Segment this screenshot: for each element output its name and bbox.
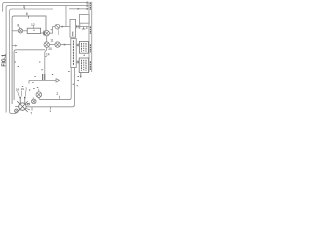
pipe from T bottom right — [73, 68, 75, 106]
box R2 — [79, 58, 88, 73]
svg-text:4: 4 — [86, 26, 88, 30]
wire branch down from second loop — [65, 6, 67, 27]
node terminal dot 1 — [86, 1, 88, 3]
svg-text:19: 19 — [21, 87, 25, 91]
pipe from T bottom left — [70, 68, 72, 98]
pump P3 circle-x — [44, 42, 49, 47]
valve ticks on main line — [77, 25, 79, 28]
svg-text:2: 2 — [29, 88, 31, 92]
svg-text:2: 2 — [56, 92, 58, 96]
wire E right with arrow — [60, 44, 71, 46]
pump P2 circle — [55, 24, 60, 29]
wire T to R1 — [76, 44, 79, 46]
wire third loop left segment — [10, 9, 53, 53]
pump P1 circle-x — [44, 31, 49, 36]
box 9 top and left — [14, 50, 45, 100]
motor M1 circle-x — [18, 29, 22, 33]
wire B down to D — [46, 36, 48, 42]
wire to box — [23, 30, 27, 32]
tall text box T — [71, 39, 76, 68]
fan F circle-x — [36, 92, 42, 98]
wire D to E — [49, 44, 55, 46]
svg-text:18: 18 — [16, 87, 20, 91]
svg-text:12: 12 — [31, 23, 35, 27]
wire pump row left — [12, 30, 18, 32]
wire outer top loop — [3, 3, 86, 12]
svg-text:8: 8 — [17, 23, 19, 27]
tall box U — [70, 19, 76, 37]
arrow on line — [62, 26, 64, 28]
valve V2 double bar — [43, 74, 45, 80]
wire main line right — [60, 26, 89, 28]
svg-text:14: 14 — [46, 53, 50, 57]
wire box6 top edge and left edge — [12, 16, 46, 104]
mark 10 — [51, 29, 52, 31]
pump P4 circle-x — [55, 42, 60, 47]
wire second loop — [6, 6, 86, 113]
small circle I — [15, 109, 19, 113]
wire F to right pipe L1 — [39, 97, 71, 99]
wire third loop right segment with arrow — [69, 8, 86, 10]
cluster extra spokes — [15, 103, 30, 110]
svg-text:11: 11 — [50, 39, 54, 43]
wire bottom L2 — [26, 105, 74, 107]
compressor cluster circle-x — [19, 103, 26, 110]
node terminal dot 2 — [86, 5, 88, 7]
right frame line b — [91, 2, 93, 72]
wire y80.4 with open arrow — [29, 79, 56, 81]
component box 12 — [27, 28, 40, 33]
cross junction — [79, 23, 81, 29]
svg-text:7: 7 — [30, 111, 32, 115]
wire third loop vertical with bottom stub — [10, 52, 17, 114]
leader below pump P2 — [58, 29, 60, 35]
right margin text dashes — [89, 2, 91, 10]
wire right-angle up to small pump — [49, 27, 55, 34]
vertical from D down with jog — [45, 47, 47, 74]
marks near valve — [22, 75, 53, 87]
node terminal dot 3 — [86, 8, 88, 10]
right frame line a — [88, 2, 90, 72]
svg-text:3: 3 — [25, 86, 27, 90]
valve ticks — [43, 31, 44, 36]
ground mark — [82, 27, 86, 29]
label between R1 and R2 — [83, 54, 85, 56]
leader arrow 9 — [12, 45, 15, 47]
top right box — [79, 14, 89, 23]
svg-text:1: 1 — [49, 109, 51, 113]
svg-text:20: 20 — [48, 47, 52, 51]
wire box to valve — [41, 32, 45, 34]
svg-text:6: 6 — [26, 12, 28, 16]
svg-text:FIG.1: FIG.1 — [1, 54, 7, 67]
box R1 — [79, 41, 88, 53]
arrow below R2 — [80, 73, 82, 77]
wire T to R2 — [76, 61, 79, 63]
fan G circle-x — [32, 99, 37, 104]
tick below box9 corner — [15, 51, 17, 53]
interior marks — [15, 62, 43, 70]
leader marks near pipes — [68, 71, 69, 73]
